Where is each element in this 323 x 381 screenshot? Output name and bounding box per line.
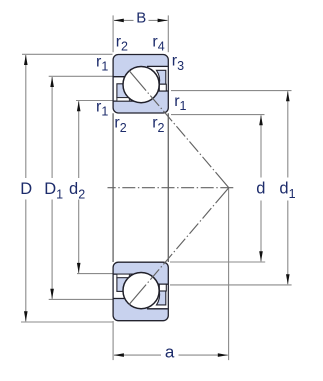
outer ring bottom right line: [147, 65, 168, 67]
a arrow left: [114, 353, 124, 357]
d1 arrow down: [286, 274, 290, 284]
B extension line left: [112, 15, 114, 52]
inner ring recess box left: [117, 98, 129, 102]
d2 extension line bottom: [77, 273, 113, 275]
B extension line right: [167, 15, 169, 52]
svg-text:D: D: [20, 180, 32, 198]
outer ring bottom left line: [113, 76, 135, 78]
d1 extension line top: [171, 90, 292, 92]
D dimension line: [25, 55, 27, 178]
d1 arrow up: [286, 91, 290, 101]
d1 dimension line: [287, 91, 289, 177]
d arrow down: [259, 251, 263, 261]
D extension line top: [22, 53, 113, 55]
face connector line left: [112, 113, 114, 262]
D1 extension line bottom: [49, 298, 113, 300]
gap white right: [141, 67, 168, 90]
a dimension line: [114, 354, 161, 356]
cage left: [117, 84, 129, 98]
D1 arrow up: [50, 77, 54, 87]
d dimension line: [260, 115, 262, 177]
D arrow down: [24, 311, 28, 321]
D1 dimension line: [51, 77, 53, 178]
a extension line left: [112, 321, 114, 360]
gray extension + dimension lines: [21, 15, 292, 360]
D extension line bottom: [21, 321, 113, 323]
cage right: [157, 70, 166, 84]
ball: [123, 67, 159, 103]
bottom bearing cross-section (mirror): [113, 262, 168, 321]
d1 extension line bottom: [170, 284, 292, 286]
inner ring shoulder left line: [113, 100, 137, 102]
d extension line bottom: [170, 261, 265, 263]
a extension line right from apex: [228, 189, 230, 361]
contact angle line top: [129, 71, 229, 188]
D arrow up: [24, 55, 28, 65]
B arrow left: [114, 19, 124, 23]
arrowheads: [24, 19, 290, 357]
face connector line right: [167, 113, 169, 262]
inner ring shoulder right line: [145, 90, 168, 92]
outer+inner ring body: [113, 55, 168, 114]
D1 extension line top: [49, 75, 113, 77]
d2 arrow down: [77, 263, 81, 273]
d2 dimension line: [78, 101, 80, 178]
a arrow right: [218, 353, 228, 357]
B dimension line: [114, 19, 134, 21]
inner ring recess box right: [159, 84, 166, 91]
contact angle line bottom: [129, 188, 229, 305]
d2 arrow up: [77, 101, 81, 111]
D1 arrow down: [50, 289, 54, 299]
top bearing cross-section: [113, 55, 168, 114]
center axis dash-dot: [108, 187, 234, 189]
d arrow up: [259, 115, 263, 125]
d2 extension line top: [76, 100, 113, 102]
svg-text:d: d: [256, 180, 265, 198]
svg-text:B: B: [136, 9, 146, 26]
gap white left: [114, 77, 141, 100]
B arrow right: [158, 19, 168, 23]
d extension line top: [171, 114, 265, 116]
svg-text:a: a: [165, 342, 175, 361]
